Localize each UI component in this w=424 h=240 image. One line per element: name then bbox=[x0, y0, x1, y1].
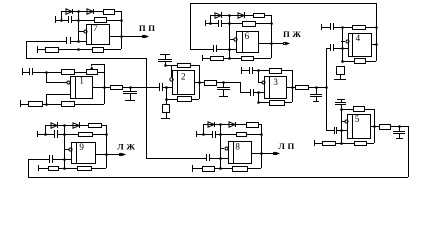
svg-text:7: 7 bbox=[93, 23, 98, 33]
svg-text:2: 2 bbox=[181, 72, 186, 82]
svg-text:4: 4 bbox=[356, 33, 361, 43]
svg-text:5: 5 bbox=[355, 114, 360, 124]
svg-text:ПЖ: ПЖ bbox=[283, 29, 304, 39]
svg-text:9: 9 bbox=[79, 142, 84, 152]
svg-text:ПП: ПП bbox=[139, 23, 158, 33]
svg-text:1: 1 bbox=[79, 75, 84, 85]
svg-text:ЛЖ: ЛЖ bbox=[117, 142, 137, 152]
svg-text:8: 8 bbox=[235, 141, 240, 151]
svg-text:3: 3 bbox=[273, 77, 278, 87]
svg-text:ЛП: ЛП bbox=[278, 141, 296, 151]
svg-text:6: 6 bbox=[245, 31, 250, 41]
